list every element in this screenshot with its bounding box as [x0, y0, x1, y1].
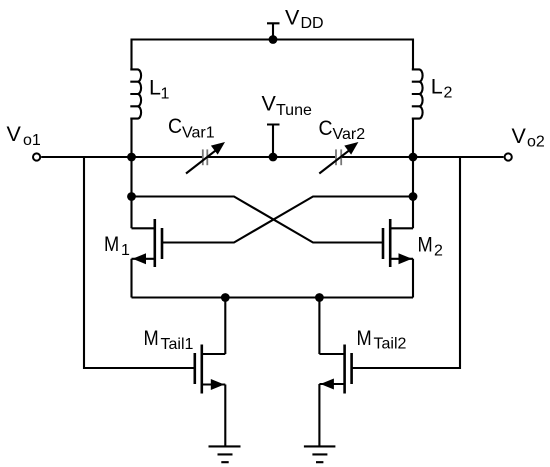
svg-text:M: M	[357, 326, 372, 350]
svg-text:V: V	[512, 124, 527, 148]
svg-text:Tail1: Tail1	[161, 336, 194, 353]
svg-text:Tail2: Tail2	[374, 335, 407, 352]
svg-text:M: M	[144, 326, 159, 350]
svg-text:V: V	[285, 6, 300, 30]
svg-text:Tune: Tune	[276, 102, 312, 119]
svg-text:C: C	[168, 114, 182, 138]
svg-text:DD: DD	[301, 15, 324, 32]
svg-text:L: L	[149, 76, 161, 100]
svg-text:Var2: Var2	[333, 126, 366, 143]
svg-text:V: V	[7, 122, 22, 146]
svg-text:M: M	[418, 232, 433, 256]
svg-text:o2: o2	[527, 133, 545, 150]
svg-text:L: L	[431, 75, 443, 99]
svg-text:2: 2	[444, 85, 453, 102]
svg-text:2: 2	[434, 242, 443, 259]
svg-text:o1: o1	[23, 132, 41, 149]
svg-text:V: V	[262, 92, 277, 116]
svg-text:C: C	[319, 116, 333, 140]
svg-text:1: 1	[161, 86, 170, 103]
svg-text:M: M	[104, 232, 119, 256]
svg-text:1: 1	[121, 242, 130, 259]
svg-text:Var1: Var1	[182, 124, 215, 141]
